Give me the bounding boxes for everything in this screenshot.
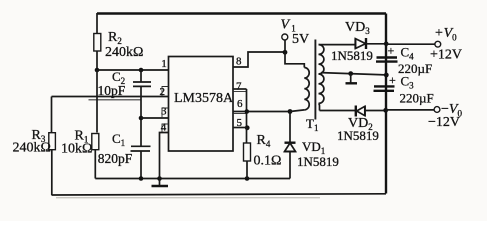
- wire +V0 terminal lead: [386, 43, 435, 45]
- transformer T1 secondary winding upper: [319, 45, 324, 74]
- wire pin 8 to V1 node: [233, 52, 285, 67]
- pin 3 box and label: [162, 108, 169, 118]
- diode VD1: [284, 112, 339, 179]
- node C1 ground junction: [139, 176, 144, 181]
- transformer T1 secondary winding lower: [319, 74, 324, 103]
- diode VD3: [331, 20, 386, 63]
- svg-text:10kΩ: 10kΩ: [61, 141, 92, 156]
- pin 7 lead and label: [233, 88, 247, 90]
- resistor R4: [244, 128, 282, 179]
- svg-text:+12V: +12V: [430, 48, 462, 63]
- wire ground bus: [95, 178, 290, 180]
- node R4 ground junction: [245, 176, 250, 181]
- IC U1 LM3578A switching regulator: [169, 57, 235, 152]
- svg-text:820pF: 820pF: [98, 151, 133, 166]
- capacitor C2: [98, 69, 152, 98]
- capacitor C4: [376, 44, 432, 77]
- svg-text:+: +: [388, 44, 395, 58]
- node V1 junction: [283, 50, 288, 55]
- wire secondary bottom lead: [319, 103, 320, 110]
- terminal +V0 circle: [435, 41, 441, 47]
- svg-text:LM3578A: LM3578A: [174, 91, 234, 106]
- resistor R1: [61, 129, 99, 179]
- capacitor C3: [374, 73, 434, 106]
- pin 6 box and label: [233, 91, 247, 93]
- svg-text:240kΩ: 240kΩ: [13, 140, 51, 155]
- wire pins 6,7 to switch node: [233, 111, 290, 113]
- ground symbol: [152, 179, 169, 187]
- node pin5/R4 junction: [245, 125, 250, 130]
- resistor R3: [13, 97, 56, 196]
- pin 5 box and label: [233, 113, 247, 115]
- wire pin 2 lead / R3 top: [89, 99, 142, 101]
- wire bottom border (negative rail): [52, 194, 387, 195]
- pin 4 box and label: [162, 124, 169, 133]
- svg-text:V: V: [281, 17, 291, 32]
- wire pin 3 lead: [141, 117, 169, 119]
- diode VD2: [320, 106, 386, 144]
- terminal V1 circle: [282, 34, 288, 40]
- transformer T1 core: [314, 40, 316, 120]
- svg-text:7: 7: [236, 80, 242, 92]
- wire pin5 stub: [233, 127, 247, 129]
- svg-text:3: 3: [161, 106, 167, 118]
- transformer T1 primary lead: [285, 52, 304, 67]
- node switch node junction: [288, 109, 293, 114]
- svg-text:+: +: [389, 73, 396, 87]
- wire pin 1 lead: [97, 69, 169, 71]
- wire primary bottom lead: [290, 110, 304, 112]
- svg-text:4: 4: [161, 121, 167, 133]
- wire -V0 terminal lead: [386, 109, 434, 111]
- wire V1 terminal lead: [284, 41, 286, 53]
- svg-text:5V: 5V: [292, 32, 309, 47]
- node center tap rail junction: [384, 73, 389, 78]
- pin 2 box and label: [162, 87, 169, 97]
- svg-text:2: 2: [160, 86, 166, 98]
- svg-text:6: 6: [237, 98, 243, 110]
- svg-text:1N5819: 1N5819: [337, 128, 379, 143]
- node R4 top junction: [245, 109, 250, 114]
- svg-text:8: 8: [236, 56, 242, 68]
- svg-text:−12V: −12V: [428, 115, 460, 130]
- wire pin 4 to ground: [160, 133, 169, 179]
- wire right +/- output rail: [385, 14, 387, 194]
- svg-text:220µF: 220µF: [400, 91, 434, 106]
- svg-text:1: 1: [161, 58, 167, 70]
- wire secondary center tap: [321, 73, 386, 75]
- wire top feedback rail: [97, 12, 386, 14]
- svg-text:1N5819: 1N5819: [331, 48, 373, 63]
- node VD3 rail junction: [384, 42, 389, 47]
- svg-text:240kΩ: 240kΩ: [105, 45, 143, 60]
- resistor R2: [94, 13, 144, 70]
- node C2 top junction: [139, 68, 144, 73]
- node VD2 rail junction: [383, 108, 388, 113]
- svg-text:1N5819: 1N5819: [297, 154, 339, 169]
- transformer T1 primary winding: [304, 67, 309, 109]
- node chip ground junction: [157, 176, 162, 181]
- wire secondary top lead: [319, 44, 356, 46]
- node pin1 feedback junction: [95, 68, 100, 73]
- node pin 3 junction: [139, 116, 144, 121]
- wire R2-R1 mid column: [96, 70, 98, 133]
- node center tap ground junction: [348, 71, 353, 76]
- ground symbol center tap: [346, 74, 358, 84]
- wire C2 to C1 column: [140, 97, 142, 146]
- capacitor C1: [98, 131, 151, 179]
- svg-text:0.1Ω: 0.1Ω: [254, 154, 282, 169]
- terminal -V0 circle: [434, 107, 440, 113]
